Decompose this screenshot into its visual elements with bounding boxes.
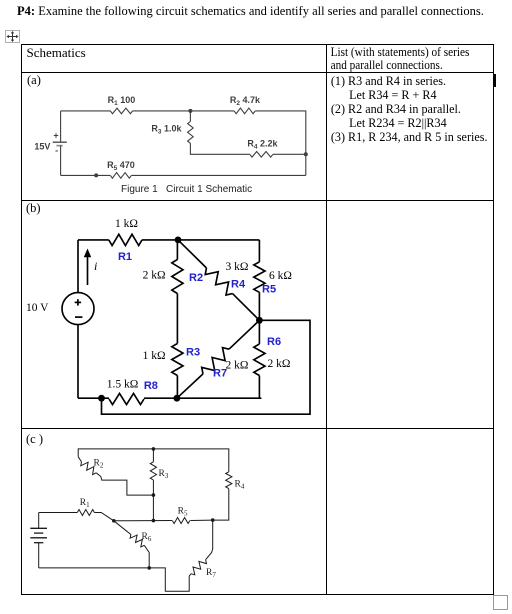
node [152, 518, 156, 522]
svg-text:R3: R3 [159, 469, 169, 480]
svg-text:R5 470: R5 470 [107, 160, 135, 172]
wire: top-left [61, 110, 111, 112]
resistor R3 vertical [152, 449, 154, 462]
svg-text:R2 4.7k: R2 4.7k [230, 95, 261, 107]
(a) label [27, 73, 41, 88]
node: bottom-left junction [98, 394, 105, 401]
wire: outer loop right [102, 320, 311, 414]
svg-text:R6: R6 [142, 532, 152, 543]
resistor R4 3k diagonal [178, 239, 207, 267]
resistor R1 100 [110, 108, 132, 114]
svg-text:R3: R3 [186, 346, 200, 358]
node: top junction [175, 236, 182, 243]
node: top junction [188, 109, 192, 113]
current arrow i [87, 256, 89, 285]
battery [38, 512, 40, 528]
resistor R3 1.0k [189, 111, 191, 122]
svg-text:R3 1.0k: R3 1.0k [151, 124, 182, 136]
wire: top-mid [133, 110, 235, 112]
resistor R1 horizontal [39, 511, 78, 513]
svg-text:15V: 15V [34, 142, 50, 152]
battery 15V [60, 111, 62, 142]
resistor R5 470 [110, 173, 131, 179]
svg-text:R1: R1 [80, 498, 90, 509]
table move handle [5, 30, 20, 43]
table resize handle [493, 595, 508, 610]
title [17, 4, 484, 19]
svg-text:i: i [94, 259, 97, 273]
svg-text:R2: R2 [94, 458, 104, 469]
wire [152, 495, 154, 520]
wire [144, 397, 261, 399]
svg-text:R1: R1 [118, 251, 132, 263]
svg-text:R5: R5 [262, 283, 276, 295]
circuit a [21, 72, 326, 200]
resistor R3 1k vertical [172, 343, 183, 375]
svg-text:R4: R4 [231, 278, 246, 290]
svg-text:+: + [53, 131, 58, 141]
resistor R5 6k vertical [258, 239, 260, 261]
svg-text:R8: R8 [144, 380, 158, 392]
resistor R2 4.7k [234, 108, 255, 114]
node: top junction [152, 447, 156, 451]
wire: bottom wire + step [39, 568, 190, 591]
caption: Figure 1 Circuit 1 Schematic [121, 184, 261, 195]
svg-text:6 kΩ: 6 kΩ [269, 270, 292, 282]
svg-text:1.5 kΩ: 1.5 kΩ [107, 378, 139, 390]
node: R3 bottom junction [152, 493, 156, 497]
resistor R5 horizontal [172, 517, 190, 523]
svg-text:10 V: 10 V [26, 302, 49, 314]
wire [273, 153, 306, 155]
svg-text:R4: R4 [235, 479, 245, 490]
node: R5 right junction [211, 518, 215, 522]
wire: mid wire [114, 519, 172, 521]
resistor R7 diagonal [189, 573, 191, 575]
text caret [494, 74, 496, 87]
wire: bottom-left [61, 174, 111, 176]
wire: bottom wire [78, 397, 109, 399]
voltage source 10V [77, 239, 79, 292]
svg-text:-: - [55, 146, 58, 156]
node: bottom junction [147, 566, 151, 570]
resistor R7 2k diagonal [229, 320, 259, 349]
node: bottom-center junction [174, 394, 181, 401]
wire: R3 bottom to R4 [190, 143, 249, 154]
svg-text:3 kΩ: 3 kΩ [226, 261, 249, 273]
circuit c [21, 429, 326, 595]
svg-text:2 kΩ: 2 kΩ [226, 359, 249, 371]
svg-text:1 kΩ: 1 kΩ [115, 218, 138, 230]
resistor R2 diagonal [78, 456, 81, 461]
wire [176, 293, 178, 343]
svg-text:R6: R6 [267, 336, 281, 348]
(c) label [26, 432, 43, 447]
resistor R2 2k vertical [176, 239, 178, 259]
node: mid-left junction [112, 519, 116, 523]
resistor R6 diagonal [114, 520, 131, 534]
svg-text:R2: R2 [189, 272, 203, 284]
wire: top-right + right edge [255, 111, 306, 175]
wire: top wire [78, 449, 229, 472]
resistor R6 2k vertical [258, 320, 260, 344]
(b) label [26, 201, 41, 216]
node: bottom junction [94, 173, 98, 177]
svg-text:2 kΩ: 2 kΩ [268, 358, 291, 370]
wire [142, 238, 259, 240]
wire: top wire [78, 238, 109, 240]
resistor R1 1k [109, 234, 142, 245]
svg-text:R1 100: R1 100 [108, 95, 136, 107]
svg-text:R7: R7 [206, 568, 216, 579]
node: right junction [304, 152, 308, 156]
svg-text:1 kΩ: 1 kΩ [143, 350, 166, 362]
circuit b [21, 201, 326, 429]
svg-text:R4 2.2k: R4 2.2k [247, 138, 278, 150]
wire: bottom [131, 174, 305, 176]
node: mid-right junction [256, 316, 263, 323]
svg-text:2 kΩ: 2 kΩ [143, 269, 166, 281]
resistor R4 2.2k [250, 152, 273, 158]
resistor R4 vertical [226, 471, 232, 488]
svg-text:R5: R5 [178, 506, 188, 517]
